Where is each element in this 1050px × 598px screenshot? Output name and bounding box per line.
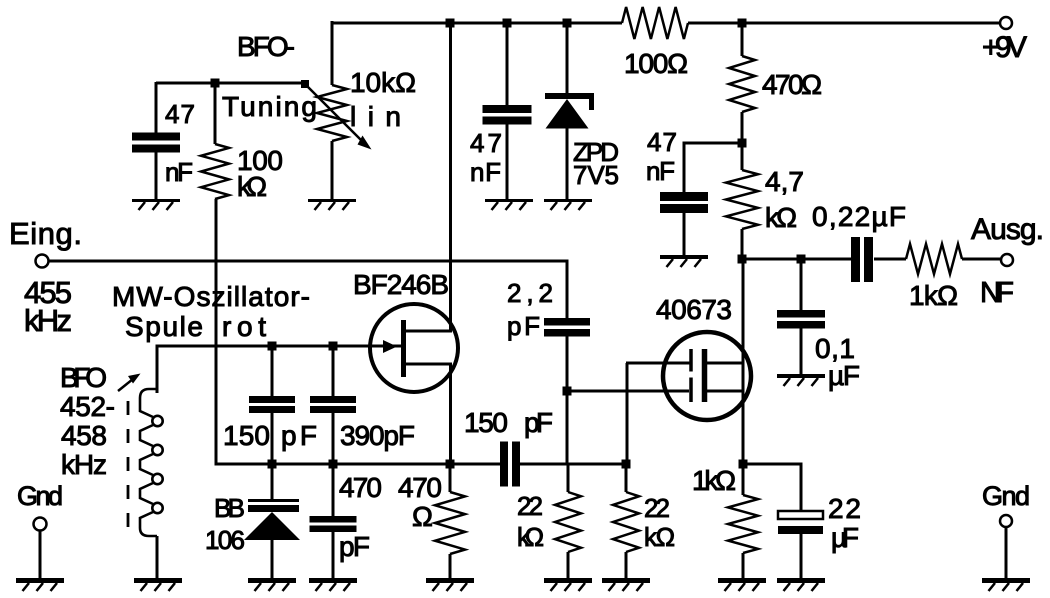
ground 22kΩ gate2 (602, 581, 650, 592)
ground potentiometer (308, 201, 356, 211)
resistor 100kΩ (201, 83, 283, 202)
resistor 1kΩ output (906, 244, 962, 311)
ground BB106 (248, 581, 296, 592)
svg-text:390pF: 390pF (340, 420, 415, 451)
node rail-drain (446, 19, 455, 28)
ground Gnd right (982, 581, 1030, 592)
node 0,1µF (797, 255, 806, 264)
capacitor 47nF bias (646, 127, 708, 256)
svg-text:1kΩ: 1kΩ (909, 280, 958, 311)
capacitor 0,22µF (812, 201, 906, 282)
svg-text:22: 22 (828, 493, 861, 524)
svg-text:470: 470 (339, 472, 382, 503)
ground 47nF bias (660, 257, 708, 267)
svg-text:Spule: Spule (125, 311, 203, 342)
svg-text:nF: nF (470, 157, 501, 187)
terminal Eing. 455kHz (9, 216, 82, 338)
svg-text:470Ω: 470Ω (762, 69, 822, 100)
terminal Ausg. NF (971, 213, 1044, 309)
wire oscillator gate (157, 345, 402, 348)
svg-text:470: 470 (398, 472, 442, 503)
svg-text:2,2: 2,2 (507, 278, 553, 308)
svg-text:10kΩ: 10kΩ (350, 67, 416, 98)
wire drain node (742, 258, 851, 261)
node wiper-100kΩ (211, 79, 220, 88)
svg-text:NF: NF (980, 277, 1014, 309)
svg-text:100Ω: 100Ω (624, 48, 688, 79)
potentiometer 10kΩ lin (301, 67, 416, 200)
ground zener (544, 201, 592, 211)
svg-text:nF: nF (165, 157, 193, 187)
wire wiper bus (156, 82, 305, 85)
wire drain BF246B (449, 23, 452, 331)
wire gate2 (626, 363, 690, 465)
transistor BF246B (353, 269, 458, 392)
svg-text:MW-Oszillator-: MW-Oszillator- (112, 281, 310, 312)
node fb-150pF (268, 460, 277, 469)
svg-text:Ausg.: Ausg. (971, 213, 1044, 246)
node osc-150pF (268, 342, 277, 351)
svg-text:Tuning: Tuning (222, 91, 317, 122)
svg-text:kΩ: kΩ (517, 522, 544, 552)
resistor 1kΩ source (692, 464, 758, 580)
capacitor 150pF series (464, 407, 626, 487)
node bias (738, 139, 747, 148)
svg-text:22: 22 (644, 493, 670, 523)
node gate1 (563, 387, 572, 396)
capacitor 0,1µF (777, 259, 860, 391)
svg-text:pF: pF (507, 311, 540, 341)
capacitor 2,2pF (507, 278, 590, 392)
diode BB106 varicap (205, 464, 300, 580)
capacitor 150pF shunt (223, 346, 317, 464)
svg-text:458: 458 (61, 420, 107, 451)
svg-text:kHz: kHz (24, 303, 72, 338)
ground 470Ω source (426, 581, 474, 592)
wire bias to 47nF (684, 142, 742, 145)
ground 47nF input (132, 201, 180, 211)
node rail-470Ω (738, 19, 747, 28)
wire 100kΩ to feedback node (215, 199, 273, 466)
svg-text:kHz: kHz (61, 449, 107, 480)
wire source 40673 (742, 391, 745, 465)
ground 22kΩ gate1 (544, 581, 592, 592)
svg-text:Eing.: Eing. (9, 216, 82, 251)
svg-text:22: 22 (517, 491, 543, 521)
wire gate1 to osc node (566, 391, 569, 464)
capacitor 47nF input (132, 82, 195, 200)
ground 22µF (777, 581, 825, 592)
wire feedback node (272, 463, 500, 466)
svg-text:BF246B: BF246B (353, 269, 449, 300)
svg-text:nF: nF (646, 156, 675, 186)
node rail-zener (563, 19, 572, 28)
resistor 22kΩ gate2 (613, 464, 675, 580)
svg-text:kΩ: kΩ (765, 202, 797, 233)
wire cap to 1kΩ (874, 258, 906, 261)
node fb-source (446, 460, 455, 469)
svg-text:µF: µF (828, 360, 860, 391)
ground coil (134, 581, 182, 592)
capacitor 47nF rail (470, 21, 532, 200)
svg-text:kΩ: kΩ (644, 522, 675, 552)
ground 0,1µF (777, 376, 825, 386)
wire input 455kHz (48, 261, 569, 319)
capacitor 390pF (310, 346, 415, 464)
wire +9V rail (332, 22, 1001, 25)
terminal +9V (982, 17, 1027, 64)
svg-text:Ω: Ω (412, 501, 433, 532)
svg-text:kΩ: kΩ (237, 171, 267, 202)
ground 1kΩ source (718, 581, 766, 592)
svg-text:47: 47 (165, 99, 195, 129)
transistor 40673 (656, 294, 751, 420)
svg-text:BB: BB (214, 493, 245, 523)
wire source BF246B (449, 364, 452, 465)
svg-text:pF: pF (339, 531, 370, 562)
node fb-390pF (329, 460, 338, 469)
capacitor 22µF electrolytic (778, 493, 861, 580)
svg-text:µF: µF (831, 522, 859, 553)
svg-text:rot: rot (222, 311, 266, 342)
resistor 4,7kΩ (726, 143, 804, 260)
wire gate1 (567, 390, 689, 393)
resistor 470Ω source (398, 464, 465, 580)
capacitor 470pF (310, 464, 383, 580)
diode ZPD 7V5 (545, 21, 619, 200)
ground 47nF rail (485, 201, 533, 211)
svg-text:40673: 40673 (656, 294, 732, 325)
wire source node (743, 464, 803, 512)
svg-text:150: 150 (223, 420, 270, 451)
wire drain 40673 (742, 259, 745, 392)
svg-text:BFO: BFO (60, 362, 107, 393)
svg-text:1kΩ: 1kΩ (692, 465, 736, 496)
inductor MW-Oszillator-Spule (128, 345, 163, 581)
wire rail to potentiometer (331, 21, 334, 85)
label BFO 452-458 kHz (60, 362, 141, 480)
svg-text:Gnd: Gnd (982, 481, 1030, 511)
node rail-47nF (503, 19, 512, 28)
svg-text:106: 106 (205, 525, 245, 555)
node source 40673 (739, 460, 748, 469)
label BFO-Tuning (222, 31, 317, 122)
resistor 22kΩ gate1 (517, 464, 581, 580)
resistor 470Ω supply (729, 23, 822, 144)
svg-text:+9V: +9V (982, 31, 1027, 64)
resistor 100Ω (622, 7, 688, 79)
svg-text:BFO-: BFO- (237, 31, 295, 62)
terminal Gnd right (982, 481, 1030, 580)
node osc-390pF (329, 342, 338, 351)
svg-text:pF: pF (524, 407, 553, 438)
svg-text:4,7: 4,7 (765, 166, 804, 197)
svg-text:7V5: 7V5 (573, 160, 619, 190)
ground Gnd left (16, 581, 64, 592)
node mixer input (622, 460, 631, 469)
svg-text:0,22µF: 0,22µF (812, 201, 906, 232)
ground 470pF (309, 581, 357, 592)
svg-text:Gnd: Gnd (17, 481, 63, 511)
wire 1kΩ to Ausg. (962, 258, 1001, 261)
svg-text:150: 150 (464, 407, 508, 438)
svg-text:452-: 452- (60, 391, 115, 422)
svg-text:47: 47 (647, 127, 677, 157)
node drain-filter (738, 255, 747, 264)
svg-text:pF: pF (281, 420, 317, 451)
label MW-Oszillator-Spule (112, 281, 310, 342)
terminal Gnd left (17, 481, 63, 580)
